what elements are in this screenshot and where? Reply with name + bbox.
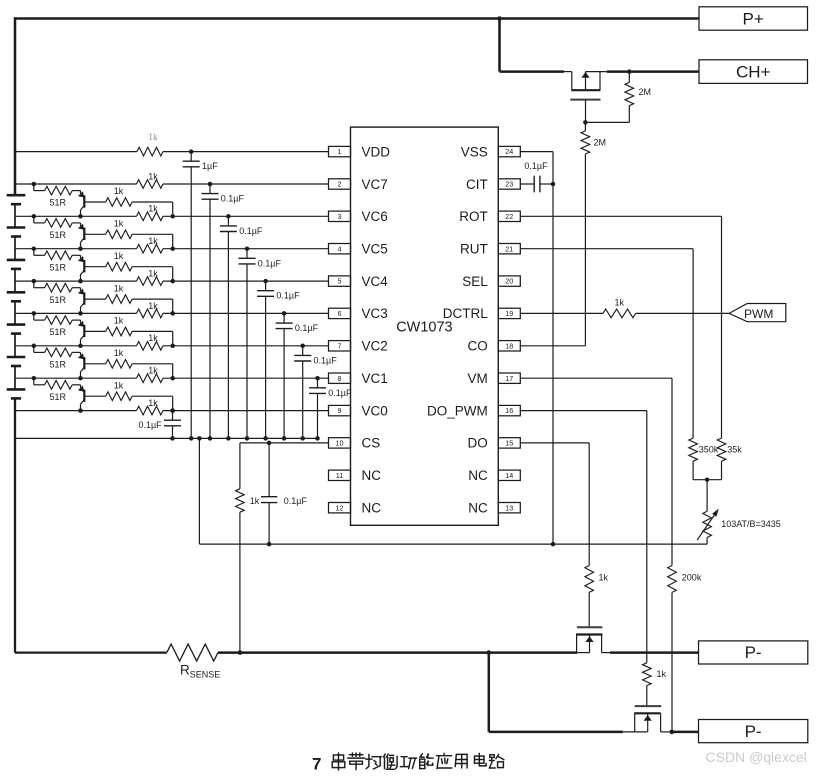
svg-text:51R: 51R — [50, 295, 67, 305]
svg-text:10: 10 — [336, 439, 344, 448]
svg-text:1k: 1k — [114, 348, 124, 358]
svg-text:CH+: CH+ — [736, 62, 771, 81]
svg-text:0.1µF: 0.1µF — [314, 355, 338, 365]
svg-text:VC5: VC5 — [362, 242, 388, 257]
svg-text:16: 16 — [505, 406, 513, 415]
svg-text:1k: 1k — [148, 171, 158, 181]
svg-text:22: 22 — [505, 212, 513, 221]
svg-text:1k: 1k — [148, 269, 158, 279]
svg-text:CS: CS — [362, 436, 381, 451]
svg-text:P-: P- — [745, 722, 762, 741]
svg-text:51R: 51R — [50, 327, 67, 337]
svg-text:1k: 1k — [599, 573, 609, 583]
svg-text:1k: 1k — [114, 316, 124, 326]
svg-text:NC: NC — [362, 501, 382, 516]
svg-text:21: 21 — [505, 244, 513, 253]
svg-text:350k: 350k — [699, 445, 719, 455]
svg-text:CW1073: CW1073 — [396, 319, 452, 335]
svg-text:NC: NC — [468, 468, 488, 483]
svg-text:1k: 1k — [148, 133, 158, 143]
svg-text:DO: DO — [468, 436, 488, 451]
svg-text:51R: 51R — [50, 360, 67, 370]
svg-text:1k: 1k — [114, 283, 124, 293]
svg-text:24: 24 — [505, 147, 513, 156]
svg-text:VC0: VC0 — [362, 403, 388, 418]
svg-text:20: 20 — [505, 277, 513, 286]
svg-text:23: 23 — [505, 180, 513, 189]
svg-text:CIT: CIT — [466, 177, 488, 192]
svg-text:11: 11 — [336, 471, 343, 480]
svg-text:103AT/B=3435: 103AT/B=3435 — [721, 519, 781, 529]
svg-text:ROT: ROT — [459, 209, 488, 224]
svg-text:2M: 2M — [594, 138, 607, 148]
svg-text:VC4: VC4 — [362, 274, 389, 289]
svg-text:0.1µF: 0.1µF — [138, 420, 162, 430]
svg-text:15: 15 — [505, 439, 513, 448]
svg-text:VC3: VC3 — [362, 306, 388, 321]
svg-text:51R: 51R — [50, 198, 67, 208]
svg-text:SEL: SEL — [462, 274, 488, 289]
svg-text:VM: VM — [468, 371, 488, 386]
svg-text:1k: 1k — [148, 366, 158, 376]
svg-text:6: 6 — [338, 309, 342, 318]
svg-text:9: 9 — [338, 406, 342, 415]
svg-text:0.1µF: 0.1µF — [284, 496, 308, 506]
svg-text:2M: 2M — [639, 87, 652, 97]
svg-text:5: 5 — [338, 277, 342, 286]
svg-text:VDD: VDD — [362, 144, 391, 159]
svg-text:1: 1 — [338, 147, 342, 156]
svg-text:13: 13 — [505, 503, 513, 512]
svg-text:PWM: PWM — [744, 307, 773, 321]
svg-text:DO_PWM: DO_PWM — [427, 403, 488, 418]
svg-text:7: 7 — [338, 341, 342, 350]
svg-text:VC1: VC1 — [362, 371, 388, 386]
svg-text:VC7: VC7 — [362, 177, 388, 192]
svg-text:0.1µF: 0.1µF — [221, 194, 245, 204]
svg-text:NC: NC — [468, 501, 488, 516]
svg-text:VSS: VSS — [461, 144, 488, 159]
svg-text:17: 17 — [505, 374, 513, 383]
svg-text:3: 3 — [338, 212, 342, 221]
svg-text:1k: 1k — [114, 380, 124, 390]
svg-text:35k: 35k — [727, 445, 742, 455]
svg-text:4: 4 — [338, 244, 342, 253]
svg-text:0.1µF: 0.1µF — [276, 291, 300, 301]
svg-text:1k: 1k — [114, 186, 124, 196]
svg-text:1k: 1k — [114, 251, 124, 261]
svg-text:1k: 1k — [615, 298, 625, 308]
svg-text:1µF: 1µF — [202, 161, 218, 171]
svg-text:1k: 1k — [148, 204, 158, 214]
svg-text:1k: 1k — [114, 219, 124, 229]
svg-text:DCTRL: DCTRL — [443, 306, 488, 321]
svg-text:1k: 1k — [148, 301, 158, 311]
svg-text:18: 18 — [505, 341, 513, 350]
svg-text:1k: 1k — [250, 496, 260, 506]
svg-text:VC2: VC2 — [362, 339, 388, 354]
svg-text:12: 12 — [336, 503, 344, 512]
svg-text:51R: 51R — [50, 262, 67, 272]
svg-text:0.1µF: 0.1µF — [524, 161, 548, 171]
svg-text:CO: CO — [468, 339, 488, 354]
svg-text:RUT: RUT — [460, 242, 488, 257]
svg-text:14: 14 — [505, 471, 513, 480]
svg-text:1k: 1k — [148, 333, 158, 343]
svg-text:2: 2 — [338, 180, 342, 189]
svg-text:7: 7 — [312, 755, 321, 774]
svg-text:0.1µF: 0.1µF — [295, 323, 319, 333]
svg-text:NC: NC — [362, 468, 382, 483]
svg-text:1k: 1k — [148, 398, 158, 408]
svg-text:P+: P+ — [743, 9, 764, 28]
svg-text:1k: 1k — [148, 236, 158, 246]
svg-text:19: 19 — [505, 309, 513, 318]
svg-text:P-: P- — [745, 643, 762, 662]
svg-text:CSDN @qlexcel: CSDN @qlexcel — [706, 749, 807, 765]
svg-text:VC6: VC6 — [362, 209, 388, 224]
svg-text:200k: 200k — [682, 573, 702, 583]
svg-text:0.1µF: 0.1µF — [239, 226, 263, 236]
svg-text:51R: 51R — [50, 392, 67, 402]
svg-text:0.1µF: 0.1µF — [258, 258, 282, 268]
svg-text:8: 8 — [338, 374, 342, 383]
svg-text:1k: 1k — [657, 669, 667, 679]
svg-text:51R: 51R — [50, 230, 67, 240]
svg-text:0.1µF: 0.1µF — [328, 388, 352, 398]
